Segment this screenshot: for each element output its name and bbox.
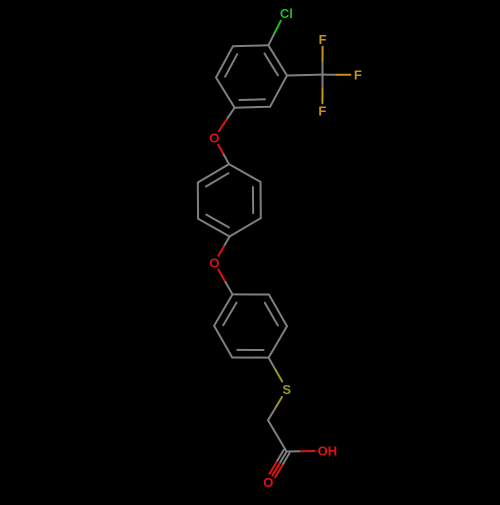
svg-text:F: F (318, 103, 326, 118)
svg-text:O: O (209, 255, 219, 270)
svg-text:F: F (354, 68, 362, 83)
svg-text:O: O (263, 475, 273, 490)
svg-text:S: S (282, 382, 291, 397)
svg-text:O: O (209, 131, 219, 146)
svg-text:OH: OH (318, 444, 338, 459)
svg-text:F: F (319, 32, 327, 47)
svg-text:Cl: Cl (280, 6, 293, 21)
